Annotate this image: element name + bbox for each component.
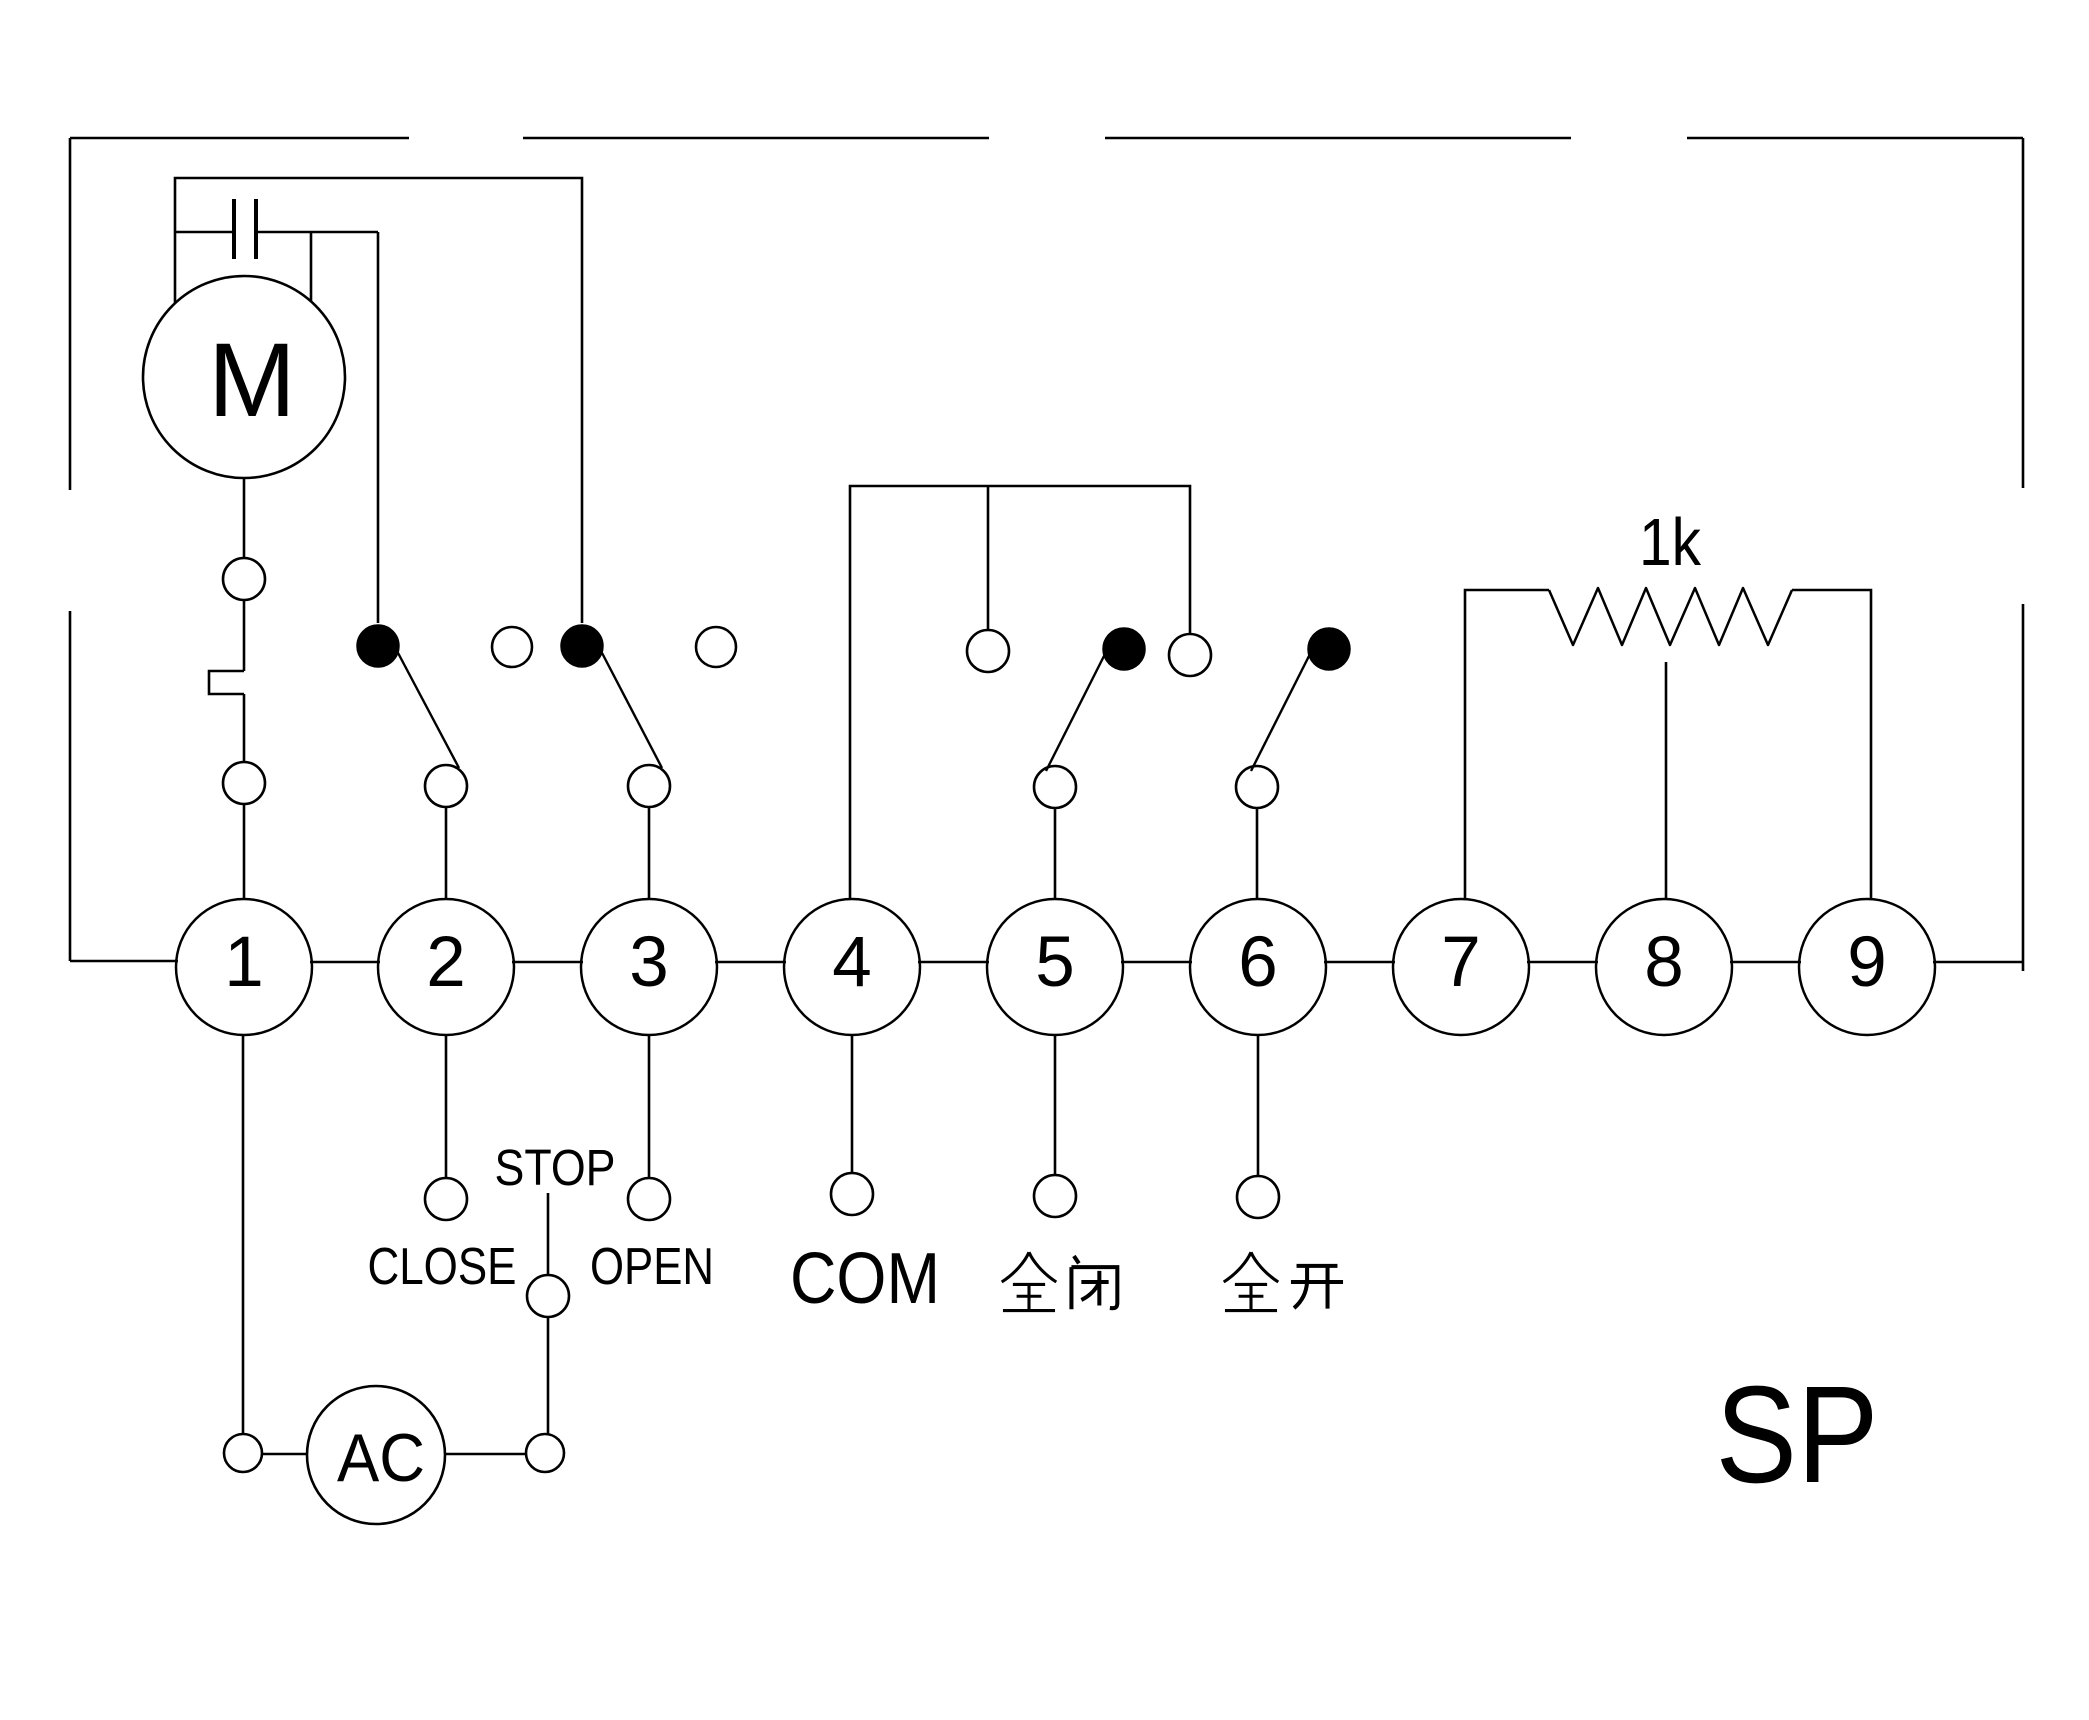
wire capacitor left lead bbox=[175, 231, 232, 234]
switch SQ2 NO contact bbox=[696, 627, 736, 667]
svg-text:CLOSE: CLOSE bbox=[368, 1238, 517, 1296]
label 全 (full) of 全开 bbox=[1224, 1252, 1279, 1310]
wire left border upper bbox=[69, 138, 72, 490]
pigtail circle terminal 2 CLOSE bbox=[425, 1178, 467, 1220]
label 闭 (closed) of 全闭 bbox=[1071, 1256, 1117, 1309]
switch SQ1 lever bbox=[397, 651, 459, 768]
wire motor to node circle bbox=[243, 478, 246, 558]
terminal 9 circle bbox=[1799, 899, 1935, 1035]
pigtail circle left of AC bbox=[224, 1434, 262, 1472]
pigtail circle terminal 4 COM bbox=[831, 1173, 873, 1215]
node circle above terminal 1 bbox=[223, 762, 265, 804]
wire below terminal 6 full-open bbox=[1257, 1035, 1260, 1176]
wire thermal protector to node circle bbox=[243, 694, 246, 762]
svg-text:OPEN: OPEN bbox=[590, 1238, 714, 1296]
terminal 5 circle bbox=[987, 899, 1123, 1035]
svg-text:5: 5 bbox=[1035, 923, 1075, 1002]
switch SQ4 lever bbox=[1251, 654, 1310, 771]
terminal 3 circle bbox=[581, 899, 717, 1035]
switch SQ4 common contact bbox=[1236, 766, 1278, 808]
wire motor loop (left up, top, right down to switch 3) bbox=[175, 178, 582, 623]
pigtail circle right of AC bbox=[526, 1434, 564, 1472]
wire terminal 5 to terminal 6 bbox=[1121, 961, 1192, 964]
wire top border segment 3 bbox=[1105, 137, 1571, 140]
wire top border segment 2 bbox=[523, 137, 989, 140]
thermal overload protector bbox=[209, 671, 244, 694]
motor M circle bbox=[143, 276, 345, 478]
switch SQ2 common contact bbox=[628, 765, 670, 807]
wire switch SQ3 to terminal 5 bbox=[1054, 808, 1057, 899]
svg-text:4: 4 bbox=[832, 923, 872, 1002]
svg-text:6: 6 bbox=[1238, 923, 1278, 1002]
node circle below motor bbox=[223, 558, 265, 600]
label 全 (full) of 全闭 bbox=[1002, 1252, 1057, 1310]
switch SQ4 left contact bbox=[1169, 634, 1211, 676]
wire right border upper bbox=[2022, 138, 2025, 488]
terminal 8 circle bbox=[1596, 899, 1732, 1035]
svg-text:STOP: STOP bbox=[495, 1139, 616, 1196]
switch SQ2 NC contact (filled) bbox=[561, 625, 603, 667]
wire right border lower bbox=[2022, 604, 2025, 971]
wire left border lower bbox=[69, 611, 72, 961]
svg-text:9: 9 bbox=[1847, 923, 1887, 1002]
wire terminal 1 to terminal 2 bbox=[310, 961, 380, 964]
STOP button circle bbox=[527, 1275, 569, 1317]
wire terminal 6 to terminal 7 bbox=[1324, 961, 1395, 964]
resistor R1 1k zigzag bbox=[1549, 588, 1792, 645]
wire top border segment 4 bbox=[1687, 137, 2023, 140]
switch SQ2 lever bbox=[601, 651, 662, 768]
svg-text:7: 7 bbox=[1441, 923, 1481, 1002]
wire terminal 3 to terminal 4 bbox=[715, 961, 786, 964]
switch SQ3 left contact bbox=[967, 630, 1009, 672]
svg-text:1: 1 bbox=[224, 923, 264, 1002]
wire switch SQ1 to terminal 2 bbox=[445, 807, 448, 899]
switch SQ3 right contact (filled) bbox=[1103, 628, 1145, 670]
pigtail circle terminal 6 full-open bbox=[1237, 1176, 1279, 1218]
svg-text:AC: AC bbox=[337, 1420, 425, 1496]
pigtail circle terminal 5 full-close bbox=[1034, 1175, 1076, 1217]
svg-text:COM: COM bbox=[790, 1239, 940, 1319]
wire below terminal 5 full-close bbox=[1054, 1035, 1057, 1175]
wire AC left lead bbox=[262, 1453, 307, 1456]
wire terminal 7 to terminal 8 bbox=[1527, 961, 1598, 964]
wire resistor left lead bbox=[1465, 590, 1549, 899]
label 开 (open) of 全开 bbox=[1291, 1266, 1343, 1309]
terminal 4 circle bbox=[784, 899, 920, 1035]
wire node to terminal 1 bbox=[243, 804, 246, 899]
switch SQ3 common contact bbox=[1034, 766, 1076, 808]
wire AC right lead bbox=[445, 1453, 526, 1456]
switch SQ3 lever bbox=[1046, 654, 1105, 771]
wire switch SQ2 to terminal 3 bbox=[648, 807, 651, 899]
switch SQ1 common contact bbox=[425, 765, 467, 807]
wire below terminal 2 CLOSE bbox=[445, 1035, 448, 1178]
switch SQ1 NC contact (filled) bbox=[357, 625, 399, 667]
pigtail circle terminal 3 OPEN bbox=[628, 1178, 670, 1220]
wire terminal 1 down to AC node bbox=[242, 1035, 245, 1434]
wire COM bracket (terminal 4 up, across, down to switch 4 contact) bbox=[850, 486, 1190, 899]
wire capacitor right lead bbox=[258, 231, 378, 234]
wire below terminal 3 OPEN bbox=[648, 1035, 651, 1178]
wire STOP button down bbox=[547, 1317, 550, 1434]
wire terminal 4 to terminal 5 bbox=[918, 961, 989, 964]
wire switch SQ4 to terminal 6 bbox=[1256, 808, 1259, 899]
svg-text:SP: SP bbox=[1716, 1358, 1879, 1512]
capacitor C1 right plate bbox=[254, 199, 258, 259]
svg-text:2: 2 bbox=[426, 923, 466, 1002]
wire below terminal 4 COM bbox=[851, 1035, 854, 1173]
AC source circle bbox=[307, 1386, 445, 1524]
terminal 7 circle bbox=[1393, 899, 1529, 1035]
terminal 1 circle bbox=[176, 899, 312, 1035]
capacitor C1 left plate bbox=[232, 199, 236, 259]
switch SQ1 NO contact bbox=[492, 627, 532, 667]
terminal 2 circle bbox=[378, 899, 514, 1035]
wire COM bracket middle drop bbox=[987, 486, 990, 630]
svg-text:8: 8 bbox=[1644, 923, 1684, 1002]
wire junction capacitor to motor bbox=[310, 232, 313, 302]
wire terminal 9 to right border bbox=[1933, 961, 2023, 964]
terminal 6 circle bbox=[1190, 899, 1326, 1035]
wire top border segment 1 bbox=[70, 137, 409, 140]
wire terminal 8 to terminal 9 bbox=[1730, 961, 1801, 964]
wire resistor right lead bbox=[1792, 590, 1871, 899]
wire left border to terminal 1 bbox=[70, 960, 178, 963]
switch SQ4 right contact (filled) bbox=[1308, 628, 1350, 670]
svg-text:M: M bbox=[208, 322, 296, 439]
wire capacitor node to switch 2 bbox=[377, 232, 380, 623]
wire node to thermal protector bbox=[243, 600, 246, 671]
svg-text:3: 3 bbox=[629, 923, 669, 1002]
wire terminal 2 to terminal 3 bbox=[512, 961, 583, 964]
wire resistor wiper to terminal 8 bbox=[1665, 662, 1668, 899]
svg-text:1k: 1k bbox=[1639, 505, 1701, 580]
wire STOP label to STOP button bbox=[547, 1193, 550, 1275]
